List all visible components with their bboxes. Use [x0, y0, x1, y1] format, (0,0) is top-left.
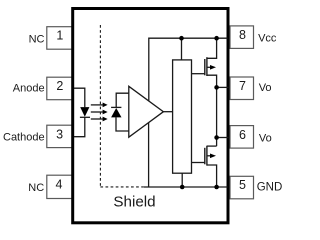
svg-text:7: 7 — [239, 79, 246, 93]
svg-text:NC: NC — [29, 33, 45, 45]
svg-text:2: 2 — [56, 79, 63, 93]
svg-text:6: 6 — [239, 128, 246, 142]
svg-text:1: 1 — [56, 29, 63, 43]
svg-text:GND: GND — [257, 182, 283, 194]
svg-text:8: 8 — [239, 28, 246, 42]
svg-text:Vo: Vo — [259, 132, 272, 144]
svg-text:3: 3 — [56, 128, 63, 142]
svg-text:Anode: Anode — [13, 82, 45, 94]
svg-text:NC: NC — [28, 182, 44, 194]
svg-text:Shield: Shield — [113, 194, 155, 211]
svg-text:5: 5 — [239, 178, 246, 192]
svg-text:4: 4 — [56, 178, 63, 192]
svg-text:Cathode: Cathode — [3, 132, 45, 144]
svg-text:Vo: Vo — [259, 82, 272, 94]
svg-text:Vcc: Vcc — [258, 33, 277, 45]
